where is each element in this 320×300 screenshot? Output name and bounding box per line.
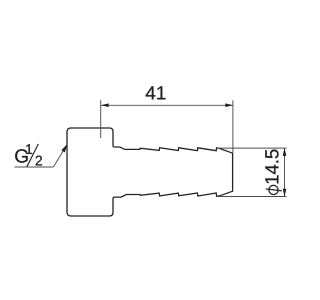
thread label G1/2: fraction slash <box>27 144 39 167</box>
fitting body outline (hex side view + barbed hose tail) <box>67 128 233 216</box>
thread label G1/2: denominator 2 <box>36 156 42 166</box>
dimension phi14.5: diameter symbol circle <box>269 185 278 194</box>
dimension 41: right arrowhead <box>225 103 233 107</box>
dimension 41: left arrowhead <box>101 103 109 107</box>
dimension phi14.5: top arrowhead <box>283 148 287 156</box>
thread label G1/2: leader underline <box>14 166 53 168</box>
thread label G1/2: leader diagonal <box>53 146 66 168</box>
dimension 41: dimension line <box>101 104 233 106</box>
thread label G1/2: G <box>15 149 27 162</box>
dimension phi14.5: extension line top <box>217 147 287 149</box>
dimension 41: extension line right <box>232 100 234 153</box>
thread label G1/2: numerator 1 <box>26 144 32 154</box>
dimension 41: extension line left <box>100 100 102 138</box>
dimension phi14.5: value text rotated <box>265 150 278 184</box>
dimension 41: value text <box>146 86 166 99</box>
dimension phi14.5: extension line bottom <box>217 196 287 198</box>
dimension phi14.5: diameter symbol slash <box>266 189 282 191</box>
thread label G1/2: leader arrowhead <box>61 144 67 153</box>
dimension phi14.5: bottom arrowhead <box>283 189 287 197</box>
dimension phi14.5: dimension line <box>284 148 286 196</box>
